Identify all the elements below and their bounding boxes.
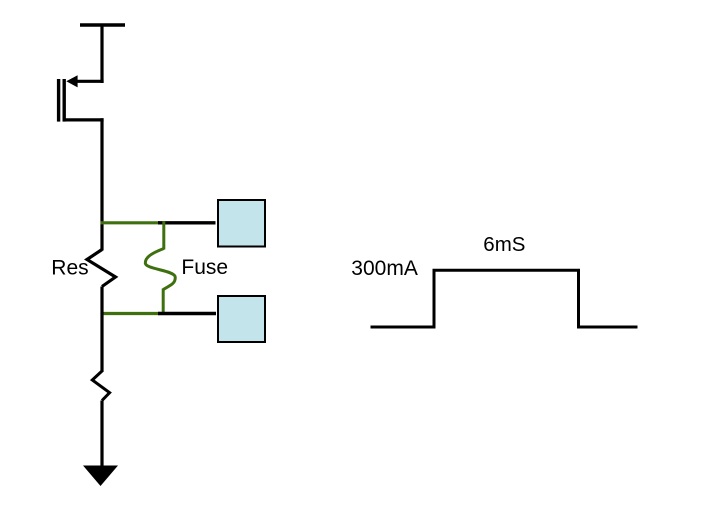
svg-text:300mA: 300mA (351, 257, 418, 280)
ground (83, 466, 118, 487)
svg-text:Res: Res (51, 257, 88, 280)
power rail VDD (80, 23, 125, 27)
top pad (218, 200, 265, 247)
resistor Res (87, 250, 116, 287)
node B: bottom green wire (101, 312, 161, 315)
svg-text:6mS: 6mS (483, 233, 525, 256)
bottom pad (218, 296, 265, 342)
svg-text:Fuse: Fuse (181, 256, 228, 279)
wire: resistor R2 to ground (100, 401, 103, 471)
current pulse waveform (371, 270, 638, 327)
wire: node B down to resistor R2 (100, 287, 103, 373)
wire: node B to bottom pad (158, 312, 216, 315)
fuse Fuse (green) (145, 221, 175, 315)
resistor R2 (92, 371, 109, 401)
wire: VDD rail to transistor source (100, 25, 103, 83)
wire: node A to top pad (158, 221, 216, 224)
node A: top green wire (101, 221, 161, 224)
wire: transistor drain to node A (100, 118, 103, 250)
transistor Q1 (59, 75, 104, 121)
